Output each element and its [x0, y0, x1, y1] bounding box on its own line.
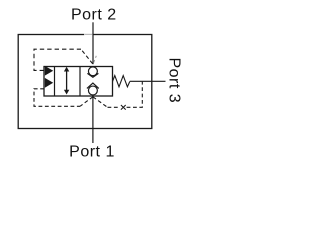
pilot line to spring chamber [127, 82, 143, 108]
envelope top edge faded patch [84, 34, 92, 36]
pilot line upper dashed [34, 49, 81, 70]
spring [113, 76, 130, 87]
check valve top ball [88, 67, 97, 76]
check valve bottom seat [87, 83, 99, 88]
pilot line lower dashed right [108, 106, 121, 108]
check valve top seat [87, 73, 98, 77]
wire Port 1 line [92, 94, 94, 143]
svg-text:Port 2: Port 2 [71, 7, 117, 24]
wire Port 3 line [130, 80, 166, 82]
plugged port x symbol [121, 105, 126, 110]
pilot line lower dashed left [34, 89, 80, 107]
pilot diagonal to top check [81, 49, 93, 64]
pilot diagonal left of port 1 tap [80, 97, 93, 107]
arrowhead down [64, 90, 69, 95]
svg-text:Port 1: Port 1 [69, 144, 115, 161]
flow arrow top triangle [45, 66, 53, 76]
svg-text:Port 3: Port 3 [166, 57, 183, 103]
double-headed arrow shaft [66, 70, 68, 93]
valve V1 body [44, 67, 113, 97]
pilot stub right of top check [94, 56, 97, 63]
pilot diagonal right of port 1 tap [93, 97, 108, 108]
wire Port 2 line [92, 22, 94, 64]
valve V1 divider right [79, 67, 81, 97]
arrowhead up [64, 67, 69, 72]
enclosure envelope box [18, 35, 152, 129]
valve V1 divider left [54, 67, 56, 97]
flow arrow bottom triangle [45, 78, 53, 88]
check valve bottom ball [88, 86, 97, 95]
